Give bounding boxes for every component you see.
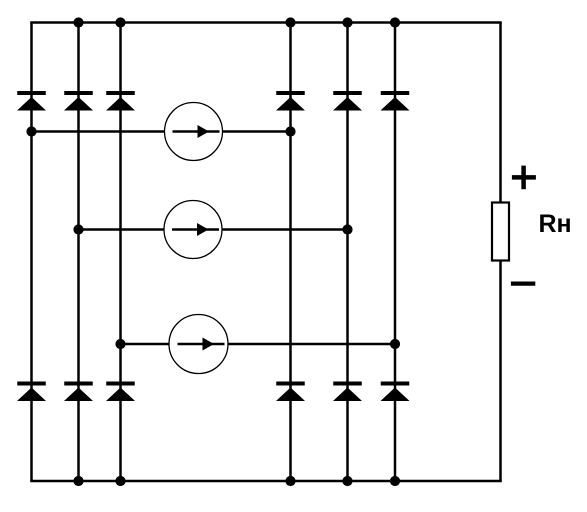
diode VD2 [64,91,93,111]
junction bottom bus / right column 3 [390,476,400,486]
junction row 3 / right column 3 [390,339,400,349]
diode VD10 [276,382,305,402]
junction top bus / right column 3 [390,17,400,27]
junction bottom bus / column 3 [115,476,125,486]
junction top bus / right column 2 [342,17,352,27]
wire load branch lower [499,261,502,482]
resistor Rн (load) [492,203,509,261]
diode VD11 [333,382,362,402]
diode VD12 [381,382,410,402]
junction row 2 / left column 2 [73,224,83,234]
wire top bus (cathode rail) [30,21,502,24]
wire bottom bus (anode rail) [30,480,502,483]
diode VD9 [106,382,135,402]
wire row 2 left segment [79,228,165,231]
current source I2 [164,201,222,259]
diode VD1 [17,91,46,111]
plus polarity mark [512,166,536,190]
wire left column 3 (phase C branch) [119,23,122,482]
wire right column 1 [289,23,292,482]
wire left column 2 (phase B branch) [77,23,80,482]
junction row 3 / left column 3 [115,339,125,349]
svg-text:Rн: Rн [539,210,572,238]
junction top bus / column 3 [115,17,125,27]
junction top bus / right column 1 [285,17,295,27]
minus polarity mark [511,282,535,286]
diode VD4 [276,91,305,111]
diode VD7 [17,382,46,402]
wire right column 2 [346,23,349,482]
wire row 1 left segment [32,130,165,133]
junction row 1 / left column 1 [26,126,36,136]
wire row 3 left segment [121,343,170,346]
diode VD6 [381,91,410,111]
wire row 2 right segment [222,228,348,231]
junction top bus / column 2 [73,17,83,27]
wire load branch upper [499,23,502,203]
wire right column 3 [394,23,397,482]
junction bottom bus / right column 1 [285,476,295,486]
wire left column 1 (phase A branch) [30,23,33,482]
junction row 2 / right column 2 [342,224,352,234]
wire row 3 right segment [228,343,395,346]
diode VD8 [64,382,93,402]
diode VD3 [106,91,135,111]
junction row 1 / right column 1 [285,126,295,136]
junction bottom bus / column 2 [73,476,83,486]
wire row 1 right segment [223,130,291,133]
junction bottom bus / right column 2 [342,476,352,486]
current source I1 [165,103,223,161]
current source I3 [169,315,228,374]
diode VD5 [333,91,362,111]
